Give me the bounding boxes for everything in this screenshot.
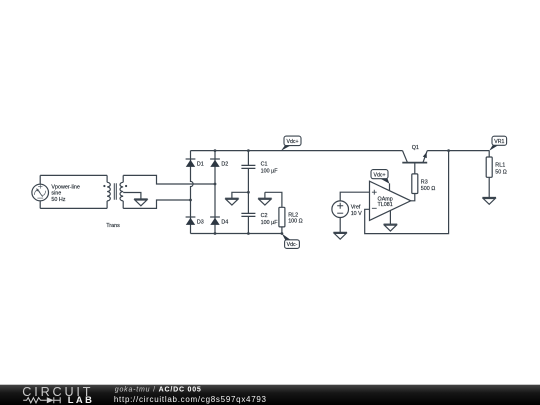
wire feedback: op-amp - input to emitter rail xyxy=(365,151,449,234)
svg-text:50 Ω: 50 Ω xyxy=(495,169,507,175)
capacitor C1 xyxy=(241,151,255,193)
ground (C1/C2 mid node) xyxy=(225,198,239,205)
svg-text:RL1: RL1 xyxy=(495,163,505,169)
wire center tap xyxy=(123,193,141,200)
svg-text:R3: R3 xyxy=(421,179,428,185)
svg-text:50 Hz: 50 Hz xyxy=(51,197,65,203)
primary coil xyxy=(107,182,110,201)
bottom bar xyxy=(0,385,540,405)
junction emitter rail / feedback xyxy=(447,149,450,152)
svg-text:100 µF: 100 µF xyxy=(261,168,279,174)
text labels xyxy=(51,139,506,248)
svg-text:goka-tmu / AC/DC 005: goka-tmu / AC/DC 005 xyxy=(115,387,202,394)
voltage source V1 (Vpower-line sine 50 Hz) xyxy=(32,184,49,201)
resistor RL1 xyxy=(486,151,492,198)
voltage source Vref xyxy=(332,201,349,233)
wire C1/C2 mid node to ground xyxy=(232,192,249,198)
ground (Vref negative) xyxy=(333,232,347,239)
wire top rail (Vdc+) xyxy=(191,150,403,152)
diode D2 xyxy=(210,159,220,167)
diode D3 xyxy=(186,217,196,225)
svg-text:Trans: Trans xyxy=(106,223,120,229)
node Vdc+ (flag on op-amp V+ pin) xyxy=(371,170,389,184)
junction at RL2 bottom / node Vdc- xyxy=(281,232,284,235)
wire secondary bottom to bridge xyxy=(123,200,190,208)
ground (RL2 top) xyxy=(258,198,272,205)
secondary lead bottom xyxy=(122,201,124,209)
junction secondary top / D2 branch xyxy=(214,183,217,186)
transistor Q1 xyxy=(402,151,427,174)
svg-text:Vdc-: Vdc- xyxy=(287,242,298,248)
junction at D2 cathode / Vdc+ rail xyxy=(214,149,217,152)
wire bottom rail (Vdc-) xyxy=(191,233,282,235)
svg-text:Q1: Q1 xyxy=(412,145,419,151)
phase dot secondary xyxy=(125,185,127,187)
svg-text:TL081: TL081 xyxy=(378,202,393,208)
junction at C2 bottom / Vdc- rail xyxy=(247,232,250,235)
junction C1-C2 mid node xyxy=(247,191,250,194)
capacitor C2 xyxy=(241,192,255,233)
junction at D4 anode / Vdc- rail xyxy=(214,232,217,235)
node Vdc+ (flag on positive rail) xyxy=(281,136,301,151)
wires of source V1 loop xyxy=(40,175,107,208)
ground (op-amp V- pin) xyxy=(384,224,398,231)
svg-text:Vref: Vref xyxy=(351,204,361,210)
wire RL2 top to ground xyxy=(265,192,282,207)
diode D4 xyxy=(210,217,220,225)
svg-text:Vdc+: Vdc+ xyxy=(374,172,386,178)
svg-text:100 µF: 100 µF xyxy=(261,220,279,226)
node VR1 (flag at RL1 top) xyxy=(489,136,506,151)
node Vdc- (flag on negative rail) xyxy=(282,234,300,249)
wire xyxy=(39,175,41,208)
svg-text:RL2: RL2 xyxy=(288,212,298,218)
svg-text:VR1: VR1 xyxy=(494,139,504,145)
svg-text:Vpower-line: Vpower-line xyxy=(51,184,79,190)
primary lead top xyxy=(106,175,108,182)
wire bridge right branch xyxy=(214,151,216,234)
wire bridge left branch (with hop over) xyxy=(191,151,194,234)
diode D1 xyxy=(186,159,196,167)
svg-text:D3: D3 xyxy=(197,220,204,226)
svg-text:http://circuitlab.com/cg8s597q: http://circuitlab.com/cg8s597qx4793 xyxy=(114,395,267,404)
wire top edge left loop xyxy=(40,174,107,176)
svg-text:10 V: 10 V xyxy=(351,211,362,217)
junction secondary bottom / D1 branch xyxy=(189,199,192,202)
logo zigzag + diode xyxy=(23,397,60,403)
secondary lead top xyxy=(122,175,124,182)
wire emitter rail to RL1/VR1 xyxy=(427,150,489,152)
op-amp U1 xyxy=(370,181,411,224)
resistor RL2 xyxy=(279,207,285,233)
svg-text:C2: C2 xyxy=(261,213,268,219)
svg-text:D2: D2 xyxy=(221,161,228,167)
svg-text:Vdc+: Vdc+ xyxy=(287,139,299,145)
svg-text:D1: D1 xyxy=(197,161,204,167)
svg-text:500 Ω: 500 Ω xyxy=(421,186,436,192)
junction at C1 top / Vdc+ rail xyxy=(247,149,250,152)
ground (RL1 bottom) xyxy=(482,198,496,205)
resistor R3 xyxy=(411,174,418,201)
wire Vref to op-amp + input xyxy=(340,192,369,201)
svg-text:LAB: LAB xyxy=(68,394,94,405)
svg-text:C1: C1 xyxy=(261,162,268,168)
svg-text:100 Ω: 100 Ω xyxy=(288,219,303,225)
wire secondary top to bridge xyxy=(123,175,215,184)
phase dot primary xyxy=(103,185,105,187)
wire bottom edge left loop xyxy=(40,207,107,209)
svg-text:D4: D4 xyxy=(221,220,228,226)
ground (transformer center tap) xyxy=(134,199,148,206)
transformer Trans xyxy=(103,175,127,208)
primary lead bottom xyxy=(106,201,108,209)
secondary coil xyxy=(120,182,123,201)
core xyxy=(114,183,116,200)
svg-text:sine: sine xyxy=(51,191,61,197)
